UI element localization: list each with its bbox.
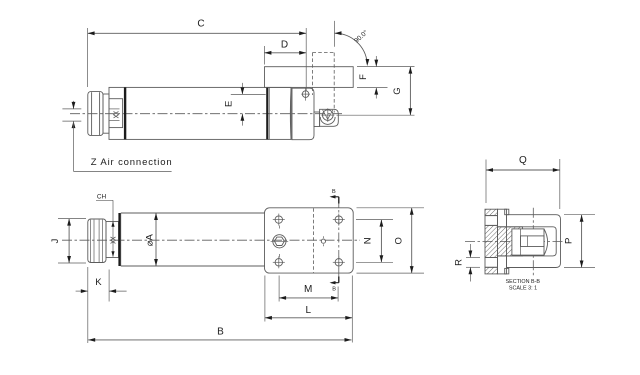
dimension L — [264, 276, 266, 322]
dimension G — [337, 114, 415, 116]
corner hole bottom-left — [275, 259, 282, 266]
svg-text:G: G — [392, 87, 403, 94]
elbow step block — [314, 112, 320, 127]
svg-text:R: R — [454, 259, 465, 266]
dimension M — [278, 276, 280, 302]
svg-text:⌀A: ⌀A — [144, 234, 155, 247]
dimension P — [564, 214, 595, 216]
section mark bottom — [338, 277, 340, 283]
elbow port crosshair circle — [323, 110, 334, 121]
corner hole top-right — [335, 216, 342, 223]
wrench hex (bottom view) — [106, 222, 119, 258]
elbow V detail — [323, 110, 333, 120]
port thread symbol — [114, 112, 119, 118]
plate top small step — [505, 209, 509, 215]
thread hole outer bore — [512, 229, 544, 255]
section mark top — [338, 197, 340, 204]
svg-text:C: C — [197, 19, 204, 30]
plate column window bottom — [485, 258, 498, 268]
boss outer profile (section) — [507, 215, 561, 268]
rotated fitting hidden outline — [311, 53, 313, 95]
svg-text:CH: CH — [97, 194, 107, 201]
dimension E — [231, 93, 266, 95]
svg-text:SCALE 3: 1: SCALE 3: 1 — [509, 286, 537, 292]
dimension O — [357, 207, 425, 209]
mounting flange plate — [265, 208, 354, 273]
svg-text:B: B — [332, 189, 336, 195]
corner hole bottom-right — [335, 259, 342, 266]
svg-text:SECTION B-B: SECTION B-B — [506, 279, 541, 285]
plate column hatched bottom segment — [485, 267, 498, 274]
svg-text:Q: Q — [519, 155, 527, 166]
rotated fitting extension line — [334, 21, 336, 47]
cap neck ring (top view) — [103, 94, 109, 133]
90 degree rotation arc — [335, 33, 368, 63]
banjo arc under elbow — [320, 117, 335, 124]
thread start line — [520, 229, 522, 255]
plate column hatched middle segment — [485, 225, 498, 257]
svg-text:J: J — [50, 238, 61, 243]
svg-text:M: M — [304, 284, 312, 295]
small center hole — [321, 239, 325, 243]
plate bottom tab slot — [498, 256, 507, 274]
svg-text:N: N — [362, 237, 373, 244]
svg-text:P: P — [563, 238, 574, 244]
dimension F — [357, 66, 415, 68]
svg-text:L: L — [306, 305, 312, 316]
dimension Z with leader — [62, 108, 81, 110]
svg-text:O: O — [394, 237, 405, 244]
head junction thick line (top view) — [266, 87, 268, 139]
corner hole top-left — [275, 216, 282, 223]
svg-text:B: B — [332, 287, 336, 293]
elbow fitting body (top view) — [320, 109, 339, 126]
dimension C — [87, 28, 89, 87]
cylinder body (bottom view) — [121, 212, 265, 214]
head nut (top view) — [292, 88, 314, 140]
thread dome end — [544, 229, 548, 255]
bottom view centerline — [62, 239, 360, 241]
dimension N — [356, 219, 393, 221]
boss web hatched area — [498, 227, 523, 256]
boss inner lobe (section) — [507, 227, 557, 256]
cylinder body (top view) — [109, 87, 291, 139]
flange plate edge-on strip (top view) — [265, 67, 354, 88]
vertical port set screw — [302, 91, 309, 98]
plate column window top — [485, 216, 498, 226]
dimension diameter A — [155, 213, 157, 266]
dimension Q — [485, 160, 487, 204]
piston seal thick line (top view) — [124, 87, 126, 139]
plate top tab slot — [498, 209, 507, 227]
dimension B — [87, 267, 89, 343]
svg-text:K: K — [95, 277, 102, 288]
center hex socket hole — [273, 235, 286, 248]
rod end cap (top view) — [88, 92, 103, 136]
top view centerline — [70, 113, 342, 115]
plate column hatched top segment — [485, 209, 498, 215]
air port block (top view) — [109, 99, 123, 128]
hex thread symbol — [111, 237, 116, 243]
dimension D — [263, 46, 265, 65]
port bore lines — [109, 108, 120, 110]
section vertical centerline — [532, 208, 534, 276]
piston seal thick line (bottom view) — [118, 213, 120, 266]
hidden head edge in plate — [312, 208, 314, 273]
svg-text:E: E — [224, 101, 235, 107]
svg-text:D: D — [281, 40, 288, 51]
dimension K — [108, 270, 110, 302]
section line B-B — [338, 198, 340, 284]
section horizontal centerline — [465, 240, 566, 242]
dimension J — [58, 218, 86, 220]
svg-text:Z Air connection: Z Air connection — [91, 157, 173, 168]
dimension R — [466, 257, 480, 259]
svg-text:B: B — [217, 327, 224, 338]
plate bottom small step — [505, 268, 509, 274]
svg-text:F: F — [358, 74, 369, 80]
rod end cap (bottom view) — [88, 219, 106, 263]
thread core — [521, 236, 545, 247]
